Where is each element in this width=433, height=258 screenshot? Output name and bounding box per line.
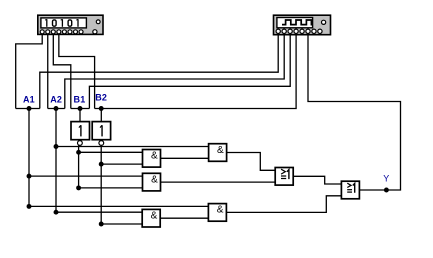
wire WG pin1 to terminal A1 left (16, 34, 43, 109)
wire node A1 down (28, 109, 30, 207)
wire G1 output to G4 input b (161, 157, 209, 159)
waveform trace (282, 20, 313, 25)
wire WG pin2 to terminal A2 left (47, 34, 49, 109)
wire G6 output to OR G7 input a (293, 176, 341, 184)
wire N2 to AND G1 input b (101, 163, 142, 165)
svg-text:B2: B2 (95, 92, 107, 102)
node Y junction (384, 188, 389, 193)
terminal A2 bottom (48, 108, 65, 110)
svg-text:B1: B1 (74, 94, 86, 104)
node A1 terminal junction (27, 106, 32, 111)
wire WG pin3 to terminal B1 left (53, 34, 71, 109)
node B2 terminal junction (99, 106, 104, 111)
wire WG pin4 to terminal B2 left (59, 34, 95, 109)
AND gate G1 (143, 150, 161, 168)
node N1 out to G1 junction (76, 150, 81, 155)
svg-text:&: & (217, 205, 224, 216)
svg-text:&: & (151, 151, 158, 162)
terminal A1 bottom (16, 108, 40, 110)
logic analyzer LA1 pins (276, 29, 322, 33)
terminal B1 bottom (71, 108, 90, 110)
node A1 to G5 junction (27, 204, 32, 209)
wire N2 output down (100, 145, 102, 224)
terminal B2 bottom / wire B2 to analyzer pin4 (95, 34, 297, 109)
wire B2 to NOT N2 input (100, 109, 102, 122)
wire G2 output to OR G6 input b (161, 181, 276, 183)
wire A1 to AND G5 input a (29, 205, 208, 207)
node A2 to G4 junction (54, 144, 59, 149)
wire A2 to AND G4 input a (56, 146, 209, 148)
AND gate G2 (143, 173, 161, 191)
AND gate G5 (208, 204, 226, 222)
wire A2 to AND G3 input a (56, 211, 142, 213)
svg-text:Y: Y (383, 173, 389, 183)
svg-text:A1: A1 (23, 94, 35, 104)
wire N1 to AND G2 input b (79, 187, 143, 189)
wire G4 output to OR G6 input a (227, 153, 276, 171)
node A2 terminal junction (54, 106, 59, 111)
node N2 out to G1 junction (99, 162, 104, 167)
wire A1 to AND G2 input a (29, 175, 143, 177)
wire G3 output to G5 input b (160, 217, 208, 219)
OR gate G6 (275, 168, 293, 186)
wire N1 to AND G1 input a (79, 151, 143, 153)
node A1 to G2 junction (27, 174, 32, 179)
svg-text:A2: A2 (50, 94, 62, 104)
wire G7 output to node Y and analyzer pin6 (308, 34, 401, 191)
logic analyzer LA1 body (274, 15, 331, 35)
wire node A2 down (55, 109, 57, 213)
svg-text:&: & (151, 211, 158, 222)
wire G5 output to OR G7 input b (226, 196, 341, 213)
word generator WG1 body (38, 15, 103, 34)
node N1 out to G2 junction (76, 185, 81, 190)
NOT gate N2 (92, 122, 110, 146)
wire B1 to analyzer pin3 (89, 34, 290, 109)
svg-text:&: & (151, 174, 158, 185)
wire A1 to analyzer pin1 (40, 34, 278, 109)
wire N1 output down (78, 145, 80, 188)
node B1 terminal junction (78, 106, 83, 111)
wire B1 to NOT N1 input (79, 109, 81, 122)
OR gate G7 (341, 181, 359, 199)
NOT gate N1 (71, 122, 90, 146)
node N2 out to G3 junction (99, 222, 104, 227)
AND gate G4 (209, 144, 227, 162)
node A2 to G3 junction (54, 210, 59, 215)
word generator WG1 pins (40, 20, 100, 34)
wire A2 to analyzer pin2 (65, 34, 284, 109)
svg-text:&: & (217, 145, 224, 156)
wire N2 to AND G3 input b (101, 223, 142, 225)
AND gate G3 (142, 209, 160, 227)
display value 10101 (46, 19, 48, 27)
